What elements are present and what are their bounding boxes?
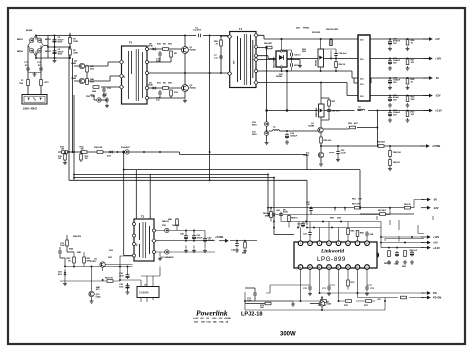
svg-text:1M: 1M [81,149,84,151]
node +5VSB arrow [185,230,229,243]
ground T1 centre tap [298,64,302,68]
capacitor C33 [58,247,65,267]
pin U2-13 [327,265,332,270]
svg-text:2R2: 2R2 [302,51,307,53]
label 300W [280,332,296,338]
capacitor C63 above IC [303,231,312,237]
svg-text:+5V: +5V [433,241,438,245]
svg-text:T3: T3 [141,215,145,219]
capacitor C21 snub [291,63,302,67]
wire bridge diamond [28,36,43,59]
svg-text:R65: R65 [351,231,356,233]
pin U2-15 [308,265,313,270]
output +3.3V [376,109,442,113]
resistor R30 [406,111,416,123]
svg-text:R67 4K7: R67 4K7 [378,209,387,212]
wire base drive lower [149,50,186,98]
pin U2-7 [355,241,360,246]
svg-text:16V: 16V [393,62,397,64]
resistor R2 [69,49,79,55]
resistor R59 [388,157,400,171]
resistor R71 [318,300,327,307]
resistor R14 [80,146,88,154]
svg-text:+3.3V +5V -5V +12V: +3.3V +5V -5V +12V -12V +5VSB [193,318,231,320]
capacitor C11 [156,90,162,102]
capacitor C71 [322,285,331,296]
pin T2-c2 [146,61,149,64]
capacitor C35 [119,273,130,279]
ground ZD1 [63,278,67,286]
capacitor C61 [297,222,305,228]
wire U1 pins [120,267,160,303]
wire bulk cap mid rail [36,33,70,58]
svg-text:LPJ2-18: LPJ2-18 [241,312,262,318]
svg-text:R10: R10 [157,44,162,46]
resistor R8 [157,44,173,51]
capacitor C72 [365,285,375,296]
svg-text:Powerlink: Powerlink [196,309,228,318]
capacitor C10 [156,51,162,63]
junction dots driver [68,151,75,179]
svg-text:1M: 1M [58,158,61,160]
resistor R66 right of IC [402,251,407,269]
svg-text:R62 39: R62 39 [404,204,411,206]
svg-text:100: 100 [411,62,415,64]
ground D11 [265,141,269,145]
pin U2-12 [336,265,341,270]
capacitor C6 [53,49,65,56]
svg-text:1M: 1M [61,149,64,151]
svg-text:C51 10n: C51 10n [332,111,341,113]
diode BRD1 [37,49,51,54]
diode BRD4 [17,49,34,54]
svg-text:D14 4007: D14 4007 [121,146,131,149]
svg-text:R11: R11 [157,83,162,85]
svg-text:16V: 16V [393,99,397,101]
pin T3-l1 [133,223,136,226]
svg-text:100n: 100n [247,300,252,302]
pin T2-d2 [119,74,123,78]
svg-text:L4: L4 [358,106,361,109]
resistor R13 [60,147,68,154]
svg-text:47: 47 [216,42,219,45]
pin U2-3 [317,241,322,246]
svg-text:C70: C70 [303,288,308,290]
svg-text:+5V: +5V [377,299,381,301]
svg-text:2.2uF: 2.2uF [341,152,347,154]
svg-text:R18 10R: R18 10R [94,147,103,149]
svg-text:+12V: +12V [435,57,441,61]
svg-text:R45: R45 [77,251,82,254]
svg-text:R12: R12 [174,92,179,94]
node +5V ref [300,292,386,302]
resistor R43 [236,240,247,255]
resistor R11 [157,83,173,90]
junction dots rectifier [266,38,337,72]
capacitor C36 [119,284,130,295]
pin T2-c4 [146,87,149,90]
output -5V [389,76,439,80]
pin T2-d3 [119,85,123,89]
svg-text:C71: C71 [322,288,327,290]
diode D10 [252,122,269,127]
inductor L4 row5 [357,106,364,111]
capacitor C3 series [193,28,202,38]
output -12V sense [421,206,439,210]
svg-text:NTC: NTC [45,82,50,84]
svg-text:22A 30A 0.3A 14A: 22A 30A 0.3A 14A 0.8A 2A [194,321,229,324]
pin U2-1 [298,241,303,246]
svg-text:1uF: 1uF [306,204,310,206]
svg-text:R40 1K: R40 1K [162,220,169,223]
svg-text:C20 1n: C20 1n [294,55,301,57]
wire IC bottom rows [245,269,424,310]
pin U2-6 [346,241,351,246]
svg-text:R68: R68 [360,233,365,235]
fuse F1 [19,80,29,86]
ground TL431 [319,162,323,166]
wire rectifier verticals [282,39,337,71]
resistor R27 [406,59,416,71]
pin U2-11 [346,265,351,270]
svg-text:R42 47K: R42 47K [73,235,82,238]
svg-text:SG6848: SG6848 [139,291,149,295]
svg-text:2R2: 2R2 [168,44,173,46]
svg-text:C945: C945 [71,77,77,80]
capacitor CY1 [24,62,30,72]
output -5V sense [421,198,437,202]
capacitor C41 [192,234,203,253]
svg-text:-12V: -12V [433,206,439,210]
svg-text:4148: 4148 [148,45,153,48]
svg-text:300W: 300W [280,332,296,338]
capacitor C26 [388,39,401,51]
diode D20 SBL3040PT [273,50,288,68]
svg-text:C13: C13 [107,88,112,90]
wire bus bundle A [74,174,268,213]
capacitor C60 [276,210,283,218]
svg-text:470uF: 470uF [208,239,215,242]
svg-text:2R2: 2R2 [90,68,95,70]
svg-text:R69: R69 [330,218,335,220]
capacitor C30 [388,110,401,122]
resistor R58 [389,145,402,156]
svg-text:R51: R51 [332,101,337,103]
wire bridge top to rail [35,36,37,59]
svg-text:47K: 47K [87,259,91,262]
wire T1 centre tap [258,60,301,64]
wire x209 drop [209,36,211,181]
svg-text:R19: R19 [86,96,91,98]
shunt reg IC3 TL431 [303,152,324,157]
resistor R29 [406,96,416,108]
svg-text:FR302: FR302 [276,76,283,78]
svg-text:+5VSB: +5VSB [215,235,223,239]
junction dots T3 area [64,169,128,281]
resistor R64 [288,216,299,222]
capacitor C12 [90,94,109,108]
capacitor C5 [53,37,65,44]
svg-text:C64: C64 [369,233,374,236]
output +12V sense [421,235,439,239]
svg-text:-5V: -5V [435,76,439,80]
svg-text:R64 10: R64 10 [291,217,298,220]
opto U3 PC817 [90,259,105,268]
svg-text:D13: D13 [107,156,112,158]
resistor R68 above IC [356,231,364,237]
ground primary minus [53,59,57,63]
svg-text:R44: R44 [69,248,74,251]
svg-text:T1: T1 [239,27,243,31]
svg-text:D33: D33 [109,250,114,252]
svg-text:D30: D30 [162,225,167,227]
capacitor C20 snub [291,53,302,57]
svg-text:K2645: K2645 [190,86,197,89]
pin T2-c1 [146,48,149,51]
svg-text:BRD2: BRD2 [45,39,51,41]
svg-text:+12V: +12V [433,235,439,239]
diode D9 [148,83,157,90]
svg-text:R49: R49 [92,90,97,93]
svg-text:+3.3V: +3.3V [435,109,442,113]
pin T3-l2 [133,234,136,237]
svg-text:4148: 4148 [283,211,288,214]
svg-text:T2: T2 [129,41,133,45]
capacitor C51 snubber [321,108,340,121]
diode D8 [148,44,157,51]
svg-text:470uF: 470uF [197,236,204,239]
svg-text:D32: D32 [108,257,113,259]
resistor R12 [170,90,179,96]
resistor R73 [364,300,372,307]
svg-text:TL431: TL431 [303,154,310,157]
pin U2-14 [317,265,322,270]
wire driver bases [74,66,79,81]
capacitor C13 [102,87,112,97]
resistor R40 [168,218,178,231]
pin T2-d1 [119,60,123,64]
svg-text:Linkworld: Linkworld [320,249,344,255]
label C9 [296,28,321,35]
resistor R55 [377,141,386,148]
wire T2 driver windings [85,62,120,87]
resistor R70 [347,280,355,286]
svg-text:1n2 2KV: 1n2 2KV [193,30,202,32]
connector AC inlet [22,95,47,105]
diode D23 MBR2045 [315,82,324,128]
resistor R24 [335,62,346,68]
junction dots half-bridge [184,35,222,182]
wire 5vsb regulation [269,111,425,163]
svg-text:R9: R9 [163,83,166,85]
wire +310V top rail [36,35,229,37]
resistor R16 [80,151,89,162]
transistor Q7 [308,123,323,133]
diode D30 [162,224,180,233]
output +5V [389,37,440,41]
pin T3-r3 [153,251,156,254]
junction dots input [35,35,71,59]
wire R13 row [58,152,307,170]
svg-text:10K: 10K [358,199,362,201]
svg-text:1K: 1K [68,260,71,262]
svg-text:5819: 5819 [252,124,257,126]
pin T1-s4 [255,70,258,73]
svg-text:BL/BR: BL/BR [26,30,33,32]
capacitor C64 above IC [365,231,374,237]
transistor Q10 [89,291,101,298]
ground Q10 [90,297,94,304]
capacitor C27 [388,58,401,70]
diode D11 [252,131,269,136]
wire T1 secondary row2 [258,56,359,59]
svg-text:150K: 150K [73,52,78,54]
transformer T1 [230,27,256,88]
svg-text:R61 10K: R61 10K [352,204,361,206]
resistor R56 snubber [214,40,222,46]
diode D25 [326,29,339,46]
transformer T3 [134,215,154,262]
svg-text:4K7: 4K7 [354,122,359,125]
label model LPJ2-18 [241,312,262,318]
svg-text:+5V: +5V [435,37,440,41]
svg-text:R25 FKL2R2: R25 FKL2R2 [326,29,339,31]
svg-text:R55 4K7: R55 4K7 [377,141,386,144]
svg-text:22uF: 22uF [119,275,125,277]
capacitor C40 [180,233,188,253]
ground IC area [244,300,295,306]
svg-text:+3.3V: +3.3V [433,246,440,250]
resistor R15 [58,151,67,165]
pin U2-9 [365,265,370,270]
svg-text:C24 2n2: C24 2n2 [339,52,348,55]
svg-text:2n2: 2n2 [156,100,160,102]
label R22 [302,49,307,53]
capacitor C42 [203,237,214,253]
thermistor NTC1 [40,80,50,86]
diode D22 FR302 [316,49,324,67]
svg-text:D25: D25 [296,28,301,30]
svg-text:PS-ON: PS-ON [433,296,441,300]
svg-text:472: 472 [38,64,42,67]
output -12V [389,94,441,98]
svg-text:R58 100: R58 100 [393,152,402,154]
wire bus bundle D [124,170,360,256]
wire T1 secondary row3 [258,71,359,78]
capacitor C70 [303,285,312,296]
diode D31 [160,250,215,259]
svg-text:T5A: T5A [19,82,23,85]
svg-text:C60: C60 [276,210,281,212]
svg-text:BRD1: BRD1 [45,51,51,53]
wire row5 tap [266,70,288,111]
transistor Q8 ps-on [310,297,332,311]
resistor R19 [86,96,104,102]
output +3.3V sense [421,246,440,250]
wire row3 jog [354,78,371,83]
svg-text:1K8: 1K8 [411,99,416,101]
svg-text:100n: 100n [119,286,124,288]
ground earth between CY caps [28,72,41,76]
svg-text:PC817: PC817 [90,261,97,263]
svg-text:2R2: 2R2 [168,83,173,85]
wire supervisor rows [268,200,433,248]
resistor R47 [86,65,95,72]
resistor R53 [348,122,359,129]
resistor R28 [406,78,416,90]
svg-text:100: 100 [411,114,415,116]
svg-text:R54 100: R54 100 [324,139,333,142]
svg-text:230V~50HZ: 230V~50HZ [23,107,37,111]
diode BRD3 [17,38,34,42]
output +5V sense [421,241,438,245]
resistor R67 [360,209,414,215]
diode BRD2 [37,38,51,42]
label D21 [276,74,284,78]
ground Q2 emitter [183,99,187,103]
pin U2-2 [308,241,313,246]
svg-text:10K: 10K [260,307,264,309]
resistor R74 [245,302,271,305]
diode D13 [107,151,114,158]
transistor Q3 driver [71,61,85,69]
svg-text:LPG-899: LPG-899 [317,256,346,263]
node 230V 50HZ [23,107,37,111]
wire AC lines bridge to inlet [28,46,41,96]
svg-text:200V: 200V [58,42,63,44]
svg-text:10V: 10V [393,114,397,116]
svg-text:C40: C40 [180,233,185,236]
pin T1-p1 [228,34,232,38]
capacitor C7 snubber [214,54,223,60]
IC U1 SG6848 [137,285,159,298]
svg-text:R61: R61 [352,199,357,201]
svg-text:+5VSB: +5VSB [432,144,440,148]
capacitor C29 [388,95,400,107]
svg-text:10R: 10R [91,96,95,98]
wire choke to caps rows [368,39,429,111]
svg-text:FR303: FR303 [303,28,310,30]
svg-text:5819: 5819 [252,134,257,136]
svg-text:C65: C65 [394,264,399,266]
junction dots sense rows [267,173,391,228]
resistor R62 [404,204,411,209]
resistor R61 [352,204,361,210]
label T3 area misc [73,220,169,252]
wire T3 secondary [156,231,216,257]
wire T1 secondary row1 [258,35,359,39]
svg-text:2R2: 2R2 [90,81,95,83]
wire base drive upper [149,36,186,63]
transformer T2 [122,41,148,105]
wire T1 secondary row4 [258,83,359,96]
svg-text:R23 2R2: R23 2R2 [312,32,321,34]
resistor R52 [105,278,114,283]
pin U2-4 [327,241,332,246]
capacitor C66 right of IC [409,250,418,264]
svg-text:R53: R53 [348,123,353,125]
svg-text:1n2: 1n2 [214,57,218,59]
pin T1-s5 [254,80,258,84]
svg-text:10V: 10V [393,43,397,45]
pin T1-s3 [254,57,258,61]
label cluster T3 left [60,243,113,291]
svg-text:K2645: K2645 [190,48,197,51]
svg-text:SBL3040PT: SBL3040PT [273,56,276,68]
wire driver feed [73,95,75,180]
wire half-bridge centre to T1 [149,36,230,74]
output +12V [389,57,441,61]
